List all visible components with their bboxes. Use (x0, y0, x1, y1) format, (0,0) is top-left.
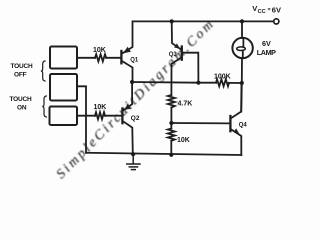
node: rail / lamp (240, 19, 244, 23)
label 6V LAMP (257, 39, 276, 57)
svg-text:Q3: Q3 (169, 52, 178, 58)
resistor R5 10K (168, 129, 175, 141)
node: Q1/Q2 collector junction to Q3 base / R3 line (132, 81, 198, 84)
bottom ground rail (86, 153, 241, 155)
top VCC rail (133, 20, 274, 22)
label VCC = 6V (252, 4, 281, 15)
node: Q3 base / R3 (196, 81, 200, 85)
svg-text:TOUCH: TOUCH (10, 96, 32, 103)
svg-text:V: V (252, 4, 257, 13)
wire lamp node to Q4 collector (vertical) (240, 83, 243, 112)
brace for TOUCH OFF (41, 61, 45, 81)
svg-text:Q4: Q4 (239, 123, 248, 129)
node B: R4/R5/Q4 base (169, 121, 173, 125)
wire P2 to ground rail (77, 86, 86, 153)
svg-text:Q1: Q1 (130, 58, 139, 64)
svg-text:OFF: OFF (14, 71, 27, 78)
wire R3 to lamp node (229, 82, 242, 84)
resistor R3 100K (216, 79, 229, 86)
wire R4 to node B (170, 108, 172, 124)
node: lamp / R3 / Q4 collector (240, 81, 244, 85)
wire R2 to Q2 base (105, 115, 122, 117)
resistor R2 10K (95, 112, 105, 119)
svg-text:TOUCH: TOUCH (11, 63, 33, 70)
wire R5 to ground rail (170, 141, 172, 155)
node: Q1/Q2 collectors (130, 80, 134, 84)
svg-text:6V: 6V (262, 39, 271, 48)
svg-text:10K: 10K (93, 47, 106, 54)
svg-text:10K: 10K (94, 104, 107, 111)
transistor Q3 (171, 21, 198, 95)
wire P1 to R1 (77, 57, 95, 59)
brace for TOUCH ON (42, 96, 46, 117)
svg-text:=: = (268, 7, 271, 13)
resistor R4 4.7K (168, 95, 175, 108)
label TOUCH OFF (11, 63, 33, 78)
transistor Q1 (121, 21, 132, 82)
node: rail / Q3 emitter (170, 19, 174, 23)
svg-text:CC: CC (258, 9, 266, 15)
svg-text:4.7K: 4.7K (178, 100, 193, 107)
touch plate P3 (50, 107, 78, 126)
svg-text:ON: ON (17, 104, 27, 111)
wire node B to Q4 base (171, 122, 230, 124)
label TOUCH ON (10, 96, 32, 111)
svg-text:Q2: Q2 (131, 115, 140, 122)
svg-text:100K: 100K (214, 73, 231, 80)
svg-text:10K: 10K (177, 137, 190, 144)
VCC terminal (274, 19, 279, 24)
svg-text:6V: 6V (272, 5, 281, 14)
transistor Q2 (122, 82, 132, 154)
ground (127, 155, 140, 170)
junction dots (130, 19, 244, 157)
touch plate P1 (50, 47, 77, 69)
lamp DS1 (232, 21, 252, 83)
wire R1 to Q1 base (106, 57, 120, 59)
node: ground rail / Q2 (131, 152, 135, 156)
wire node B to R5 (170, 123, 172, 129)
svg-text:LAMP: LAMP (257, 48, 276, 57)
touch plate P2 (50, 74, 77, 101)
node: ground rail / R5 (169, 153, 173, 157)
wire P3 to R2 (77, 115, 95, 117)
transistor Q4 (230, 83, 241, 155)
resistor R1 10K (95, 54, 106, 61)
